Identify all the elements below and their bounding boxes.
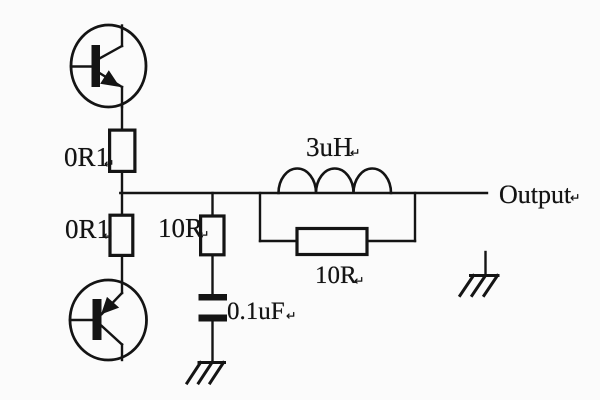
wire node to R 10R vertical (211, 193, 213, 215)
wire R to Q2 (121, 257, 123, 282)
svg-text:10R: 10R (158, 213, 203, 243)
svg-text:↵: ↵ (350, 146, 360, 160)
wire R to node / to second R (121, 172, 123, 215)
node bus wire (120, 192, 487, 194)
svg-text:↵: ↵ (286, 309, 296, 323)
wire 10R to capacitor (211, 257, 213, 296)
svg-text:3uH: 3uH (306, 132, 353, 162)
resistor R (0R1 bottom) (110, 215, 133, 255)
wire bottom rail (260, 240, 415, 242)
svg-text:0R1: 0R1 (64, 142, 109, 172)
transistor Q1 (NPN, top) (71, 25, 146, 107)
svg-text:↵: ↵ (354, 274, 364, 288)
resistor 10R (horizontal, parallel with L) (297, 229, 367, 255)
ground (below capacitor) (187, 363, 225, 384)
inductor L (3uH) (279, 169, 392, 194)
resistor 10R (vertical) (201, 216, 224, 255)
svg-text:Output: Output (499, 180, 572, 209)
resistor R (0R1 top) (110, 130, 135, 171)
capacitor C (0.1uF) (199, 294, 228, 301)
wire capacitor to ground (211, 322, 213, 363)
svg-text:↵: ↵ (103, 229, 113, 243)
svg-text:↵: ↵ (570, 191, 580, 205)
svg-text:↵: ↵ (104, 157, 114, 171)
svg-text:0.1uF: 0.1uF (227, 298, 285, 325)
svg-text:10R: 10R (315, 262, 357, 289)
svg-text:↵: ↵ (199, 228, 209, 242)
ground (right, floating) (460, 252, 498, 296)
wire L/R right vertical (414, 193, 416, 241)
transistor Q2 (PNP, bottom) (70, 280, 147, 360)
wire Q1 emitter to R1 (121, 105, 123, 130)
wire L/R left vertical (259, 193, 261, 241)
